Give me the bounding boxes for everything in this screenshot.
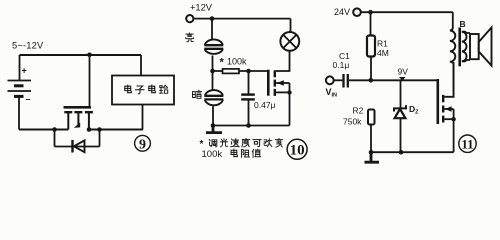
terminal 24V xyxy=(353,8,361,16)
wire bottom rail c11 xyxy=(371,151,454,153)
ground c10 xyxy=(206,126,222,133)
node rail junction c10 xyxy=(210,16,215,21)
svg-text:9: 9 xyxy=(139,138,146,153)
svg-text:9V: 9V xyxy=(398,67,409,77)
transistor Q1 MOSFET xyxy=(64,55,93,130)
node zener bottom junction xyxy=(399,150,404,155)
wire resistor leads xyxy=(213,70,249,72)
wire primary to drain xyxy=(452,63,454,97)
resistor 100k xyxy=(223,69,240,74)
node R1 top junction xyxy=(368,10,373,15)
speaker xyxy=(470,28,492,66)
wire transformer drop xyxy=(452,12,454,28)
terminal +12V xyxy=(186,15,193,22)
node resistor junction c10 xyxy=(210,69,215,74)
svg-text:100k: 100k xyxy=(227,57,247,67)
transformer B primary xyxy=(450,28,455,64)
ground c11 xyxy=(365,152,380,162)
svg-text:4M: 4M xyxy=(377,48,389,58)
svg-text:*: * xyxy=(220,57,225,69)
wire bright to dark xyxy=(212,56,214,90)
label circled 9 xyxy=(135,135,151,152)
arrow substrate Q3 xyxy=(445,106,452,111)
wire bottom rail left c9 xyxy=(19,129,68,131)
arrow substrate Q1 xyxy=(74,123,80,128)
arrow substrate Q2 xyxy=(277,80,284,86)
node ground junction c10 xyxy=(211,123,216,128)
svg-text:11: 11 xyxy=(461,136,473,151)
node capacitor top junction xyxy=(246,69,251,74)
touch plate bright xyxy=(204,39,223,54)
label circled 10 xyxy=(287,139,307,159)
resistor R2 xyxy=(368,110,375,153)
wire secondary to speaker xyxy=(466,33,470,60)
wire bottom rail c10 xyxy=(213,125,290,127)
wire box top xyxy=(140,55,142,76)
svg-text:+: + xyxy=(22,66,27,76)
wire top rail c10 xyxy=(194,18,291,20)
svg-text:–: – xyxy=(26,94,31,104)
resistor R1 xyxy=(367,12,375,80)
svg-text:100k: 100k xyxy=(202,149,223,160)
transistor Q3 MOSFET xyxy=(438,62,454,152)
label 亮 xyxy=(186,33,194,42)
capacitor 0.47u xyxy=(241,71,255,126)
touch plate dark xyxy=(204,90,223,105)
label 暗 xyxy=(193,90,202,98)
label 电子电路 xyxy=(125,85,132,93)
node diode left junction xyxy=(52,127,57,132)
capacitor C1 xyxy=(334,74,438,88)
box 电子电路 xyxy=(112,76,174,105)
zener diode Dz xyxy=(394,80,406,152)
svg-text:R1: R1 xyxy=(377,39,388,49)
battery B1 xyxy=(8,81,32,97)
svg-text:+12V: +12V xyxy=(190,3,213,13)
wire box bottom xyxy=(142,105,144,130)
transformer B secondary xyxy=(462,32,467,62)
transistor Q2 MOSFET xyxy=(268,52,289,126)
lamp xyxy=(280,19,299,51)
wire battery to bottom rail xyxy=(18,96,20,129)
svg-text:10: 10 xyxy=(290,143,305,159)
marker 9V tick xyxy=(399,77,406,81)
svg-text:750k: 750k xyxy=(343,117,362,127)
terminal Vin xyxy=(326,76,334,84)
node diode right junction xyxy=(97,127,102,132)
node drain junction c9 xyxy=(87,127,92,132)
diode D1 xyxy=(55,130,100,153)
wire bottom rail right c9 xyxy=(89,129,143,131)
svg-text:0.1μ: 0.1μ xyxy=(333,60,350,70)
transformer core xyxy=(458,28,461,67)
svg-text:R2: R2 xyxy=(353,106,364,116)
svg-text:24V: 24V xyxy=(334,7,350,17)
node ground junction c11 xyxy=(369,150,374,155)
node gate junction c9 xyxy=(87,53,92,58)
node capacitor bottom junction xyxy=(246,123,251,128)
wire junction to gate xyxy=(249,70,269,72)
node source junction Q2 xyxy=(287,90,291,94)
wire top rail c9 xyxy=(20,54,142,56)
wire dark to ground rail xyxy=(212,106,214,125)
label circled 11 xyxy=(459,135,476,152)
svg-text:B: B xyxy=(460,19,466,29)
node R2 top junction xyxy=(369,78,374,83)
wire touchplate drop xyxy=(211,19,213,39)
svg-text:0.47μ: 0.47μ xyxy=(254,100,276,110)
wire top rail c11 xyxy=(361,11,453,13)
wire battery drop xyxy=(19,55,21,80)
svg-text:5~-12V: 5~-12V xyxy=(12,41,44,51)
node source junction Q3 xyxy=(451,117,455,121)
